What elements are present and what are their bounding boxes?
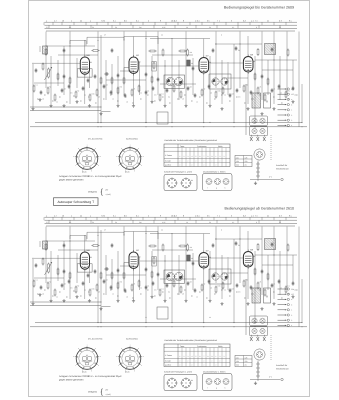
svg-text:x: x xyxy=(219,215,220,217)
svg-text:125: 125 xyxy=(245,156,248,159)
wire H10 (upper) xyxy=(210,62,243,64)
connector box K1 (upper) xyxy=(250,116,268,126)
switch wafer S1b (upper) xyxy=(221,78,228,85)
chassis rail 2 (lower) xyxy=(30,305,101,307)
bus line 1 (upper) xyxy=(45,21,298,23)
svg-text:Autosuper Schoenburg T: Autosuper Schoenburg T xyxy=(57,200,94,204)
wire V9 (upper) xyxy=(84,40,86,57)
svg-text:9: 9 xyxy=(160,19,161,22)
wire V19 (lower) xyxy=(133,269,135,300)
svg-text:Anschluß für: Anschluß für xyxy=(276,364,288,367)
svg-text:25: 25 xyxy=(279,26,281,29)
svg-text:4: 4 xyxy=(291,124,292,127)
svg-text:5: 5 xyxy=(231,214,232,217)
svg-text:25: 25 xyxy=(279,221,281,224)
wire V37 (upper) xyxy=(247,36,249,57)
capacitor C38 (lower) xyxy=(292,281,294,283)
ground symbol G12 (upper) xyxy=(209,104,211,106)
switch wafer S1a (upper) xyxy=(212,78,219,85)
coil blob L4 (lower) xyxy=(187,255,190,261)
terminal arrow a (upper) xyxy=(278,98,287,100)
wire V7 (upper) xyxy=(69,32,71,105)
svg-text:4: 4 xyxy=(221,229,222,232)
svg-text:2,2: 2,2 xyxy=(46,221,48,224)
wire V47 (upper) xyxy=(301,84,303,122)
capacitor B7 (upper) xyxy=(94,74,96,76)
svg-text:7: 7 xyxy=(217,214,218,217)
connector box K2 (lower) xyxy=(250,326,268,336)
svg-text:150: 150 xyxy=(236,360,239,363)
capacitor C35 (lower) xyxy=(271,283,273,285)
mains switch contacts S2 (upper) xyxy=(250,137,253,141)
wire V15 (lower) xyxy=(111,259,113,290)
wire H16 (upper) xyxy=(152,54,193,56)
wire V38 (lower) xyxy=(247,267,249,299)
capacitor A2 (upper) xyxy=(63,48,65,50)
capacitor B5 (upper) xyxy=(63,74,65,76)
svg-text:M 1,5c (CM781): M 1,5c (CM781) xyxy=(88,138,103,141)
wire V14 (upper) xyxy=(105,60,107,100)
ground symbol G7 (upper) xyxy=(117,104,119,106)
wire V26 (lower) xyxy=(178,255,180,295)
svg-text:geöffnet: geöffnet xyxy=(165,164,172,167)
svg-text:5k: 5k xyxy=(115,26,117,29)
capacitor C24 (lower) xyxy=(194,288,196,290)
output transformer T3 (lower) xyxy=(252,288,261,303)
svg-text:Wechselstrom: Wechselstrom xyxy=(276,367,289,370)
solder tick marks (upper) xyxy=(37,98,39,100)
ground symbol G11 (lower) xyxy=(185,299,187,301)
svg-text:0,05: 0,05 xyxy=(162,26,165,29)
capacitor C5 (upper) xyxy=(61,88,63,90)
capacitor C20 (lower) xyxy=(235,241,237,243)
terminal arrow 1 (upper) xyxy=(278,109,287,111)
wire V41 (upper) xyxy=(267,60,269,95)
bus line 4 (lower) xyxy=(46,225,295,227)
wire H8 (upper) xyxy=(120,70,133,72)
svg-text:8: 8 xyxy=(183,19,184,22)
capacitor C18 (upper) xyxy=(152,86,154,88)
ground symbol G17 (upper) xyxy=(32,107,34,109)
svg-text:geöffnet: geöffnet xyxy=(165,364,172,367)
ground symbol G2 (lower) xyxy=(50,299,52,301)
svg-text:240: 240 xyxy=(236,364,239,367)
wire V1 (lower) xyxy=(32,258,34,302)
wire H9 (lower) xyxy=(140,260,199,262)
wire H15 (upper) xyxy=(58,54,98,56)
wire V32 (upper) xyxy=(215,32,217,89)
ground symbol G4 (lower) xyxy=(76,295,78,297)
capacitor B9 (lower) xyxy=(104,268,106,270)
wire H5 (lower) xyxy=(150,233,210,235)
wire V11 (upper) xyxy=(89,63,91,88)
terminal arrow 3 (lower) xyxy=(278,319,287,321)
svg-text:30: 30 xyxy=(209,26,211,29)
wire V1 (upper) xyxy=(32,63,34,107)
svg-text:220: 220 xyxy=(245,360,248,363)
resistor B6 (lower) xyxy=(69,272,71,273)
svg-text:4h: 4h xyxy=(191,257,193,260)
wire H8 (lower) xyxy=(120,265,133,267)
wire V38 (upper) xyxy=(247,72,249,104)
fuse holder Si1 (lower) xyxy=(257,361,259,382)
wire H12 (upper) xyxy=(34,82,64,84)
wire H13 (lower) xyxy=(106,274,146,276)
resistor C22 (lower) xyxy=(180,286,182,287)
resistor C27 (upper) xyxy=(215,91,217,92)
potentiometer P1 (lower) xyxy=(48,263,50,264)
svg-text:p5 p6: p5 p6 xyxy=(82,371,87,374)
wire V42 (lower) xyxy=(273,227,275,300)
coupling box at V2 (upper) xyxy=(124,68,129,77)
antenna coil L1 (upper) xyxy=(43,46,48,54)
wire H13 (upper) xyxy=(106,79,146,81)
wire V14 (lower) xyxy=(105,255,107,295)
capacitor C8 (lower) xyxy=(82,281,84,283)
wire V4 (upper) xyxy=(50,56,52,104)
resistor B6 (upper) xyxy=(69,77,71,78)
ground symbol G3 (lower) xyxy=(63,299,65,301)
svg-text:g: g xyxy=(216,188,217,190)
bus line 1 (lower) xyxy=(45,216,298,218)
svg-text:Kontakte der Tastenkombination: Kontakte der Tastenkombination (Drucktas… xyxy=(165,339,218,342)
capacitor A10 (lower) xyxy=(271,242,273,244)
wire V46 (upper) xyxy=(298,32,300,128)
svg-text:w 2,1: w 2,1 xyxy=(195,214,200,217)
coupling box at V2 (lower) xyxy=(124,263,129,272)
svg-text:Meßgerät: Meßgerät xyxy=(88,191,97,194)
capacitor C2 (upper) xyxy=(40,90,42,92)
svg-text:Welle: Welle xyxy=(218,345,222,348)
svg-text:3: 3 xyxy=(291,319,292,322)
svg-text:7: 7 xyxy=(217,19,218,22)
wire H3 (lower) xyxy=(87,231,124,233)
ground symbol G6 (upper) xyxy=(100,112,102,114)
wire V17 (lower) xyxy=(123,227,125,291)
wire V16 (upper) xyxy=(117,56,119,104)
resistor B4 (lower) xyxy=(57,268,59,269)
rimlock socket box (lower) xyxy=(164,375,197,391)
wire risers (upper) xyxy=(85,40,87,45)
resistor C7 (upper) xyxy=(75,91,77,92)
ground symbol G8 (lower) xyxy=(133,299,135,301)
resistor B14 (lower) xyxy=(151,271,153,272)
wire V34 (lower) xyxy=(227,259,229,290)
svg-text:30: 30 xyxy=(209,221,211,224)
switch box S3 (upper) xyxy=(157,112,168,124)
capacitor B15 (lower) xyxy=(157,272,159,274)
ground symbol G15 (lower) xyxy=(261,307,263,309)
svg-text:5k: 5k xyxy=(115,221,117,224)
supply rail 1 (upper) xyxy=(35,122,302,124)
ground symbol G14 (lower) xyxy=(247,302,249,304)
wire V36 (lower) xyxy=(239,227,241,284)
svg-text:b: b xyxy=(291,103,292,106)
capacitor A4 (upper) xyxy=(111,48,113,50)
svg-text:2: 2 xyxy=(291,114,292,117)
ground symbol G16 (lower) xyxy=(273,302,275,304)
terminal arrow 127 (lower) xyxy=(278,293,287,295)
wire H6 (upper) xyxy=(215,43,262,45)
wire V32 (lower) xyxy=(215,227,217,284)
ground symbol G5 (lower) xyxy=(89,299,91,301)
wire V35 (lower) xyxy=(233,239,235,322)
resistor C1 (upper) xyxy=(33,85,35,86)
wire H11 (lower) xyxy=(255,254,297,256)
svg-text:2,2: 2,2 xyxy=(46,26,48,29)
wire V5 (upper) xyxy=(57,60,59,86)
wire H15 (lower) xyxy=(58,249,98,251)
svg-text:6,5: 6,5 xyxy=(124,19,127,22)
capacitor B11 (upper) xyxy=(117,73,119,75)
capacitor C17 (upper) xyxy=(145,90,147,92)
resistor A11 (lower) xyxy=(287,244,289,245)
resistor B12 (upper) xyxy=(123,77,125,78)
svg-text:4: 4 xyxy=(291,324,292,327)
terminal arrow 3 (upper) xyxy=(278,119,287,121)
svg-text:Taste: Taste xyxy=(180,145,184,148)
resistor C1 (lower) xyxy=(33,280,35,281)
ground symbol G12 (lower) xyxy=(209,299,211,301)
wire V25 (upper) xyxy=(171,39,173,123)
wire H9 (upper) xyxy=(140,65,199,67)
tube V1 ECH81 (lower) xyxy=(80,252,89,269)
resistor A3 (upper) xyxy=(91,50,93,52)
svg-text:AC/DC(CM1): AC/DC(CM1) xyxy=(126,138,138,141)
oscillator coil box under V1 (upper) xyxy=(77,69,92,77)
resistor C13 (lower) xyxy=(117,282,119,283)
ground symbol G8 (upper) xyxy=(133,104,135,106)
resistor A9 (upper) xyxy=(257,48,259,49)
solder tick marks (lower) xyxy=(37,293,39,295)
resistor B8 (lower) xyxy=(100,272,102,273)
wire V3 (lower) xyxy=(45,227,47,284)
wire V23 (lower) xyxy=(157,227,159,291)
svg-text:0,1: 0,1 xyxy=(136,19,139,22)
svg-text:6,5: 6,5 xyxy=(124,214,127,217)
capacitor C36 (upper) xyxy=(278,84,280,86)
resistor A9 (lower) xyxy=(257,243,259,244)
wire V40 (lower) xyxy=(261,227,263,296)
svg-text:b 3: b 3 xyxy=(279,19,282,22)
capacitor C11 (upper) xyxy=(103,84,105,86)
ground symbol G7 (lower) xyxy=(117,299,119,301)
chassis rail 1 (upper) xyxy=(30,106,101,108)
resistor A5 (lower) xyxy=(148,245,150,247)
wire V31 (upper) xyxy=(209,56,211,104)
wire V30 (upper) xyxy=(203,73,205,122)
wire V17 (upper) xyxy=(123,32,125,96)
wire V39 (upper) xyxy=(254,56,256,122)
wire V33 (upper) xyxy=(221,60,223,104)
link wire L-shape (lower) xyxy=(102,306,111,308)
switch wafer S2a (lower) xyxy=(166,272,174,280)
svg-text:b: b xyxy=(291,303,292,306)
wire V20 (lower) xyxy=(139,257,141,290)
resistor C34 (lower) xyxy=(264,289,266,290)
output transformer T3 (upper) xyxy=(252,93,261,108)
wire H17 (lower) xyxy=(222,272,248,274)
wire V11 (lower) xyxy=(89,258,91,283)
svg-text:S-Tasten: S-Tasten xyxy=(165,354,172,357)
resistor A1 (upper) xyxy=(45,48,47,49)
resistor B8 (upper) xyxy=(100,77,102,78)
push-button contact table (upper) xyxy=(164,144,230,167)
ground symbol G3 (upper) xyxy=(63,104,65,106)
capacitor C17 (lower) xyxy=(145,285,147,287)
svg-text:8: 8 xyxy=(183,214,184,217)
tube V2 EBF89 (lower) xyxy=(129,252,138,269)
band switch wafer box B (upper) xyxy=(209,74,231,89)
wire V40 (upper) xyxy=(261,32,263,101)
svg-text:gegen Masse gemessen: gegen Masse gemessen xyxy=(59,379,84,382)
capacitor C18 (lower) xyxy=(152,281,154,283)
svg-text:80: 80 xyxy=(191,179,193,182)
resistor C10 (upper) xyxy=(96,89,98,90)
dashed link wire (lower) xyxy=(270,335,272,360)
resistor C3 (upper) xyxy=(47,87,49,88)
svg-text:Wechselstrom: Wechselstrom xyxy=(276,167,289,170)
svg-text:50: 50 xyxy=(238,49,240,52)
svg-text:110: 110 xyxy=(236,356,239,359)
svg-text:u: u xyxy=(90,215,91,217)
resistor A3 (lower) xyxy=(91,245,93,247)
tube V2 EBF89 (upper) xyxy=(129,57,138,74)
wire V7 (lower) xyxy=(69,227,71,300)
svg-text:b 3: b 3 xyxy=(279,214,282,217)
capacitor C14 (lower) xyxy=(124,288,126,290)
wire V27 (lower) xyxy=(185,227,187,300)
chassis rail 1 (lower) xyxy=(30,301,101,303)
wire V10 (upper) xyxy=(84,74,86,104)
wire H7 (lower) xyxy=(34,257,80,259)
wire V16 (lower) xyxy=(117,251,119,299)
svg-text:0,1: 0,1 xyxy=(136,214,139,217)
wire risers (lower) xyxy=(85,235,87,240)
voltage selector plug (upper) xyxy=(257,152,263,158)
coil blob L4 (upper) xyxy=(187,60,190,66)
resistor C31 (upper) xyxy=(243,85,245,86)
wire V19 (upper) xyxy=(133,74,135,105)
pin diagram box (lower) xyxy=(203,374,233,391)
resistor B2 (lower) xyxy=(42,258,44,259)
svg-text:0,3: 0,3 xyxy=(174,214,177,217)
wire V44 (upper) xyxy=(286,32,288,96)
capacitor B1 (lower) xyxy=(35,263,37,265)
ground symbol G17 (lower) xyxy=(32,302,34,304)
wire V8 (upper) xyxy=(76,58,78,88)
wire H3 (upper) xyxy=(87,36,124,38)
terminal arrow b (upper) xyxy=(278,104,287,106)
resistor C34 (upper) xyxy=(264,94,266,95)
capacitor C5 (lower) xyxy=(61,283,63,285)
wire H1 (lower) xyxy=(46,240,95,242)
svg-text:1: 1 xyxy=(291,109,292,112)
svg-text:p5 p6: p5 p6 xyxy=(125,171,130,174)
terminal arrow 220 (lower) xyxy=(278,288,287,290)
ground symbol G11 (upper) xyxy=(185,104,187,106)
svg-text:44: 44 xyxy=(80,19,82,22)
tube socket view V1 (upper) xyxy=(76,148,98,170)
resistor C27 (lower) xyxy=(215,286,217,287)
svg-text:h: h xyxy=(225,187,226,190)
tube V1 ECH81 (upper) xyxy=(80,57,89,74)
wire H12 (lower) xyxy=(34,277,64,279)
capacitor C30 (lower) xyxy=(236,283,238,285)
resistor C4 (upper) xyxy=(54,94,56,95)
wire V27 (upper) xyxy=(185,32,187,105)
band switch wafer box A (upper) xyxy=(164,75,185,88)
svg-text:3 k: 3 k xyxy=(207,19,210,22)
tube socket view V2 (upper) xyxy=(119,148,141,170)
wire V37 (lower) xyxy=(247,231,249,252)
fuse holder Si1 (upper) xyxy=(257,161,259,182)
resistor A6 (upper) xyxy=(162,49,164,50)
resistor B12 (lower) xyxy=(123,272,125,273)
svg-text:13: 13 xyxy=(62,19,64,22)
capacitor C26 (lower) xyxy=(208,279,210,281)
capacitor C6 (lower) xyxy=(68,279,70,281)
resistor C28 (upper) xyxy=(222,87,224,88)
resistor C16 (lower) xyxy=(138,280,140,281)
resistor C21 (upper) xyxy=(173,85,175,86)
capacitor B11 (lower) xyxy=(117,268,119,270)
capacitor B9 (upper) xyxy=(104,73,106,75)
resistor C15 (upper) xyxy=(131,89,133,90)
ground symbol G16 (upper) xyxy=(273,107,275,109)
pilot lamp wire (lower) xyxy=(250,379,280,381)
wire V41 (lower) xyxy=(267,255,269,290)
resistor B19 (upper) xyxy=(267,78,269,79)
svg-text:4h: 4h xyxy=(191,62,193,65)
antenna coil L1 (lower) xyxy=(43,241,48,249)
wire V2 (upper) xyxy=(39,46,41,52)
svg-text:3: 3 xyxy=(291,119,292,122)
svg-text:1k: 1k xyxy=(186,221,188,224)
wire H17 (upper) xyxy=(222,77,248,79)
resistor C16 (upper) xyxy=(138,85,140,86)
svg-text:127: 127 xyxy=(291,293,294,296)
capacitor C20 (upper) xyxy=(235,46,237,48)
resistor C22 (upper) xyxy=(180,91,182,92)
svg-text:4: 4 xyxy=(221,34,222,37)
resistor R20 (upper) xyxy=(187,49,189,50)
wire H14 (lower) xyxy=(160,278,196,280)
IF resistor R15 (lower) xyxy=(153,257,155,258)
resistor C37 (lower) xyxy=(285,286,287,287)
svg-text:0,2: 0,2 xyxy=(243,214,246,217)
svg-text:x: x xyxy=(219,20,220,22)
capacitor B15 (upper) xyxy=(157,77,159,79)
svg-text:Antippen mit Antennen 220/380: Antippen mit Antennen 220/380 V∼ an Fass… xyxy=(59,175,122,178)
capacitor C30 (upper) xyxy=(236,88,238,90)
capacitor A2 (lower) xyxy=(63,243,65,245)
svg-text:85: 85 xyxy=(86,154,88,157)
ground symbol G5 (upper) xyxy=(89,104,91,106)
capacitor C26 (upper) xyxy=(208,84,210,86)
resistor B2 (upper) xyxy=(42,63,44,64)
wire V8 (lower) xyxy=(76,253,78,283)
wire H4 (lower) xyxy=(124,231,158,233)
capacitor C36 (lower) xyxy=(278,279,280,281)
wire V5 (lower) xyxy=(57,255,59,281)
wire V36 (upper) xyxy=(239,32,241,89)
capacitor C23 (lower) xyxy=(187,281,189,283)
supply rail 2 (upper) xyxy=(30,126,307,128)
svg-text:Antippen mit Antennen 220/380: Antippen mit Antennen 220/380 V∼ an Fass… xyxy=(59,375,122,378)
pilot lamp wire (upper) xyxy=(250,179,280,181)
switch wafer S1b (lower) xyxy=(221,273,228,280)
